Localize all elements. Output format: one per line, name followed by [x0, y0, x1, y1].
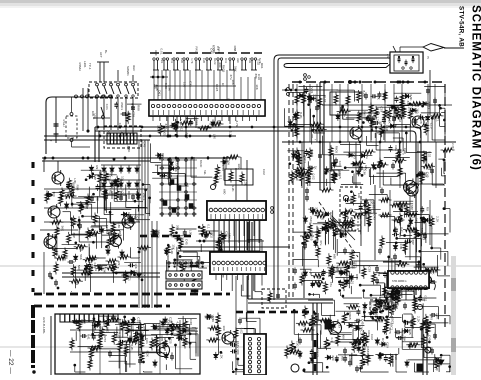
svg-text:VR1: VR1 [372, 116, 376, 122]
svg-text:47u: 47u [205, 232, 209, 237]
svg-text:10K: 10K [134, 263, 138, 269]
svg-text:C19: C19 [385, 342, 389, 348]
svg-text:47u: 47u [362, 345, 366, 350]
svg-text:C28: C28 [302, 321, 306, 327]
svg-text:8.2K: 8.2K [431, 268, 435, 275]
svg-text:33P: 33P [411, 239, 415, 245]
svg-text:BAND: BAND [199, 160, 203, 167]
svg-text:R605: R605 [161, 153, 165, 161]
svg-text:4.7K: 4.7K [379, 299, 383, 306]
svg-text:VR1: VR1 [346, 220, 350, 226]
svg-text:R73: R73 [175, 160, 179, 166]
svg-text:C19: C19 [349, 208, 353, 214]
svg-text:4.5uH: 4.5uH [62, 119, 66, 126]
svg-text:R88: R88 [194, 120, 198, 126]
svg-text:R41: R41 [224, 58, 228, 63]
svg-text:56K: 56K [83, 319, 87, 325]
svg-text:R123: R123 [213, 58, 217, 65]
svg-text:R41: R41 [170, 58, 174, 63]
svg-text:100: 100 [358, 161, 362, 166]
svg-text:C612: C612 [84, 202, 88, 210]
svg-text:C28: C28 [132, 111, 136, 117]
svg-text:10K: 10K [231, 79, 235, 85]
svg-text:+: + [50, 139, 52, 143]
svg-text:C28: C28 [169, 317, 173, 323]
svg-text:3.3K: 3.3K [211, 316, 215, 323]
svg-text:2SC1: 2SC1 [309, 216, 313, 224]
svg-text:R123: R123 [422, 233, 426, 241]
svg-text:680: 680 [154, 50, 158, 55]
svg-text:1.2K: 1.2K [392, 304, 396, 311]
svg-text:1.2K: 1.2K [231, 185, 235, 192]
svg-text:330: 330 [175, 325, 179, 330]
svg-text:2.2K: 2.2K [329, 212, 333, 219]
svg-text:R123: R123 [324, 318, 328, 326]
svg-text:56K: 56K [404, 205, 408, 211]
svg-text:D61: D61 [399, 291, 403, 297]
svg-text:— 22 —: — 22 — [7, 350, 14, 374]
svg-text:56K: 56K [60, 226, 64, 232]
svg-text:680: 680 [352, 305, 356, 310]
svg-text:VR1: VR1 [160, 58, 164, 64]
svg-text:16V: 16V [236, 343, 240, 349]
svg-text:R88: R88 [233, 46, 237, 52]
svg-text:L30: L30 [142, 272, 146, 277]
svg-text:15K: 15K [398, 158, 402, 164]
svg-text:C33: C33 [188, 81, 192, 87]
svg-text:C28: C28 [155, 85, 159, 91]
svg-text:R605: R605 [297, 152, 301, 160]
svg-text:1.2K: 1.2K [157, 232, 161, 239]
svg-text:VR1: VR1 [428, 218, 432, 224]
svg-text:33P: 33P [70, 202, 74, 208]
svg-text:0.02: 0.02 [311, 174, 315, 180]
svg-text:2.2K: 2.2K [243, 180, 247, 187]
svg-text:680: 680 [236, 349, 240, 354]
svg-text:16V: 16V [93, 232, 97, 238]
svg-text:680: 680 [72, 182, 76, 187]
svg-text:100: 100 [335, 266, 339, 271]
svg-text:R123: R123 [118, 231, 122, 239]
svg-text:100: 100 [182, 82, 186, 87]
svg-text:R9: R9 [426, 207, 430, 211]
svg-text:B+: B+ [104, 50, 108, 54]
svg-text:R73: R73 [293, 350, 297, 356]
svg-text:4.7K: 4.7K [235, 120, 239, 127]
svg-text:L201: L201 [83, 61, 87, 68]
svg-text:SEL: SEL [203, 170, 207, 175]
svg-text:C33: C33 [353, 153, 357, 159]
svg-text:0.1: 0.1 [216, 46, 220, 51]
svg-text:L30: L30 [414, 109, 418, 114]
svg-text:33P: 33P [98, 324, 102, 330]
svg-text:L30: L30 [213, 134, 217, 139]
svg-text:2SC1: 2SC1 [354, 261, 358, 269]
svg-text:220: 220 [313, 94, 317, 99]
svg-text:C28: C28 [202, 58, 206, 63]
svg-text:33P: 33P [410, 205, 414, 211]
svg-text:2SC1: 2SC1 [127, 273, 131, 281]
svg-text:33P: 33P [93, 175, 97, 181]
svg-text:0.1: 0.1 [206, 224, 210, 229]
svg-text:10K: 10K [212, 338, 216, 344]
svg-text:680: 680 [340, 356, 344, 361]
svg-text:0.01: 0.01 [343, 109, 347, 115]
svg-text:680: 680 [216, 120, 220, 125]
svg-text:10K: 10K [255, 84, 259, 90]
svg-text:VR1: VR1 [303, 171, 307, 177]
svg-text:330: 330 [314, 207, 318, 212]
svg-text:R88: R88 [355, 274, 359, 280]
svg-text:16V: 16V [307, 93, 311, 99]
svg-text:R41: R41 [194, 46, 198, 52]
svg-text:ANT: ANT [386, 54, 390, 60]
svg-text:33P: 33P [72, 232, 76, 238]
svg-text:8.2K: 8.2K [299, 112, 303, 119]
svg-text:10K: 10K [418, 296, 422, 302]
svg-text:1.2K: 1.2K [156, 125, 160, 132]
svg-text:10K: 10K [107, 130, 111, 136]
svg-text:R9: R9 [95, 165, 99, 169]
svg-text:680: 680 [332, 254, 336, 259]
svg-text:R73: R73 [127, 212, 131, 218]
svg-text:2.2K: 2.2K [436, 313, 440, 320]
svg-text:0.1: 0.1 [299, 167, 303, 172]
svg-text:C28: C28 [317, 274, 321, 280]
svg-text:100: 100 [222, 325, 226, 330]
svg-text:R73: R73 [422, 172, 426, 178]
svg-text:C45: C45 [142, 142, 146, 148]
svg-text:680: 680 [222, 189, 226, 194]
svg-text:680: 680 [218, 62, 222, 67]
svg-text:R41: R41 [399, 227, 403, 233]
svg-text:0.01: 0.01 [424, 296, 428, 302]
svg-text:0.01: 0.01 [105, 104, 109, 110]
svg-text:8.2K: 8.2K [362, 91, 366, 98]
svg-text:330: 330 [176, 225, 180, 230]
svg-text:VR1: VR1 [401, 262, 405, 268]
svg-text:R605: R605 [186, 261, 190, 269]
svg-text:AVC-B-14BL: AVC-B-14BL [42, 317, 46, 334]
svg-text:220: 220 [349, 356, 353, 361]
svg-text:15K: 15K [171, 244, 175, 250]
svg-text:C28: C28 [189, 319, 193, 325]
svg-text:VR1: VR1 [175, 123, 179, 129]
svg-text:100: 100 [400, 96, 404, 101]
svg-text:C19: C19 [389, 356, 393, 362]
svg-text:C33: C33 [221, 165, 225, 171]
svg-text:2SC1: 2SC1 [390, 323, 394, 331]
svg-text:10K: 10K [120, 130, 124, 136]
svg-text:VR1: VR1 [106, 327, 110, 333]
svg-text:0.02: 0.02 [257, 59, 261, 65]
svg-text:TP-1: TP-1 [88, 63, 92, 70]
svg-text:R73: R73 [381, 338, 385, 344]
svg-text:VR1: VR1 [212, 48, 216, 54]
svg-text:10K: 10K [424, 116, 428, 122]
svg-text:0.02: 0.02 [366, 357, 370, 363]
svg-text:SCHEMATIC DIAGRAM (6): SCHEMATIC DIAGRAM (6) [470, 5, 481, 171]
svg-text:47u: 47u [365, 154, 369, 159]
svg-text:2SC1: 2SC1 [360, 326, 364, 334]
svg-text:0.1: 0.1 [330, 338, 334, 343]
svg-text:10K: 10K [226, 160, 230, 166]
svg-text:D61: D61 [310, 149, 314, 155]
svg-text:10K: 10K [431, 115, 435, 121]
svg-text:R41: R41 [86, 334, 90, 340]
svg-text:D61: D61 [394, 146, 398, 152]
svg-text:2.2K: 2.2K [315, 316, 319, 323]
svg-text:R123: R123 [427, 102, 431, 110]
svg-text:C19: C19 [430, 123, 434, 129]
svg-text:R605: R605 [310, 233, 314, 241]
svg-text:R73: R73 [427, 164, 431, 170]
svg-text:R123: R123 [215, 84, 219, 92]
svg-text:0.01: 0.01 [121, 189, 125, 195]
svg-text:0.02: 0.02 [323, 96, 327, 102]
svg-text:2.2K: 2.2K [85, 271, 89, 278]
svg-text:100: 100 [358, 340, 362, 345]
svg-text:10K: 10K [357, 193, 361, 199]
svg-text:C45: C45 [373, 214, 377, 220]
svg-text:56K: 56K [376, 94, 380, 100]
svg-text:56K: 56K [79, 254, 83, 260]
svg-text:4.5MH: 4.5MH [78, 62, 82, 71]
svg-text:47u: 47u [413, 343, 417, 348]
svg-text:10K: 10K [316, 281, 320, 287]
svg-text:C45: C45 [360, 319, 364, 325]
svg-text:1.2K: 1.2K [127, 143, 131, 150]
svg-text:0.01: 0.01 [182, 336, 186, 342]
svg-text:R9: R9 [377, 272, 381, 276]
svg-text:100: 100 [368, 303, 372, 308]
svg-text:3.3K: 3.3K [362, 169, 366, 176]
svg-text:R41: R41 [367, 330, 371, 336]
svg-text:4.7K: 4.7K [190, 58, 194, 64]
svg-text:2.2K: 2.2K [435, 216, 439, 223]
svg-text:2.2K: 2.2K [417, 316, 421, 323]
svg-text:D61: D61 [158, 90, 162, 96]
svg-text:0.1: 0.1 [170, 352, 174, 357]
svg-text:R605: R605 [163, 129, 167, 137]
svg-text:C612: C612 [398, 115, 402, 123]
svg-text:2SC1: 2SC1 [120, 102, 124, 110]
svg-text:3.3K: 3.3K [102, 267, 106, 274]
svg-text:3.3K: 3.3K [409, 94, 413, 101]
svg-text:16V: 16V [113, 317, 117, 323]
svg-text:0.01: 0.01 [409, 228, 413, 234]
svg-text:SW201: SW201 [126, 66, 130, 76]
svg-text:47u: 47u [229, 74, 233, 79]
svg-text:R88: R88 [294, 120, 298, 126]
svg-text:330: 330 [236, 58, 240, 63]
svg-text:8.2K: 8.2K [164, 83, 168, 90]
svg-text:C33: C33 [248, 58, 252, 63]
svg-text:8.2K: 8.2K [118, 332, 122, 339]
svg-text:100: 100 [415, 102, 419, 107]
svg-text:8.2K: 8.2K [145, 351, 149, 358]
svg-text:R9: R9 [369, 210, 373, 214]
svg-text:4.7K: 4.7K [321, 214, 325, 221]
svg-text:0.1: 0.1 [219, 175, 223, 180]
svg-text:33P: 33P [164, 123, 168, 129]
svg-text:C45: C45 [429, 314, 433, 320]
svg-text:C33: C33 [337, 170, 341, 176]
svg-text:10K: 10K [91, 111, 95, 117]
svg-text:2SC1: 2SC1 [303, 155, 307, 163]
svg-text:AFT: AFT [99, 52, 103, 58]
svg-text:R88: R88 [137, 105, 141, 111]
svg-text:2.2K: 2.2K [451, 143, 455, 149]
svg-text:220: 220 [331, 355, 335, 360]
svg-text:R41: R41 [337, 219, 341, 225]
svg-text:R73: R73 [103, 336, 107, 342]
svg-text:0.01: 0.01 [101, 114, 105, 120]
svg-text:C45: C45 [136, 217, 140, 223]
svg-text:47u: 47u [319, 240, 323, 245]
svg-text:0.02: 0.02 [93, 263, 97, 269]
svg-text:STV-54R, AB: STV-54R, AB [458, 6, 465, 47]
svg-text:16V: 16V [237, 164, 241, 170]
svg-text:C45: C45 [427, 335, 431, 341]
svg-text:2SC1: 2SC1 [55, 220, 59, 228]
svg-text:C28: C28 [344, 232, 348, 238]
svg-text:0.02: 0.02 [262, 169, 266, 175]
svg-text:C612: C612 [315, 349, 319, 357]
svg-text:R605: R605 [334, 146, 338, 154]
svg-text:3.3K: 3.3K [168, 85, 172, 92]
svg-text:C45: C45 [184, 239, 188, 245]
svg-text:R41: R41 [342, 261, 346, 267]
svg-text:0.02: 0.02 [427, 151, 431, 157]
svg-text:0.1: 0.1 [394, 124, 398, 129]
svg-text:0.01: 0.01 [411, 212, 415, 218]
svg-text:C33: C33 [185, 133, 189, 139]
svg-text:C45: C45 [408, 329, 412, 335]
svg-text:330: 330 [254, 73, 258, 78]
svg-text:C33: C33 [367, 266, 371, 272]
svg-text:R41: R41 [64, 194, 68, 200]
svg-text:C45: C45 [399, 244, 403, 250]
svg-text:STM 44BM G: STM 44BM G [392, 280, 407, 283]
svg-text:47u: 47u [329, 282, 333, 287]
svg-text:56K: 56K [233, 66, 237, 72]
svg-text:R9: R9 [117, 261, 121, 265]
svg-text:10K: 10K [103, 172, 107, 178]
svg-text:8.2K: 8.2K [130, 344, 134, 351]
svg-text:C33: C33 [337, 322, 341, 328]
svg-text:15K: 15K [174, 166, 178, 172]
svg-text:100: 100 [52, 192, 56, 197]
svg-text:10K: 10K [121, 176, 125, 182]
svg-text:330: 330 [95, 347, 99, 352]
svg-text:0.01: 0.01 [160, 49, 164, 55]
svg-text:L30: L30 [188, 230, 192, 235]
svg-text:UHF: UHF [132, 65, 136, 71]
svg-text:100: 100 [295, 341, 299, 346]
svg-text:C19: C19 [137, 317, 141, 323]
svg-text:C45: C45 [160, 336, 164, 342]
svg-text:C19: C19 [75, 279, 79, 285]
svg-text:C33: C33 [97, 131, 101, 137]
svg-text:R9: R9 [113, 232, 117, 236]
svg-text:C28: C28 [180, 58, 184, 63]
svg-text:2SC1: 2SC1 [316, 122, 320, 130]
